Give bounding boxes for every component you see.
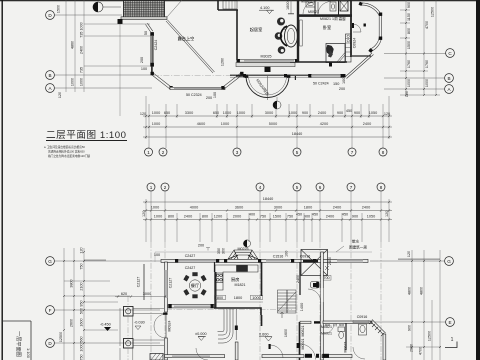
dark leafs on bottom wall bbox=[305, 354, 312, 358]
washbasin fixture bbox=[359, 324, 367, 335]
svg-text:120: 120 bbox=[384, 112, 390, 116]
X-box stair flue bbox=[301, 250, 328, 276]
lower right chain ticks bbox=[411, 260, 441, 348]
svg-text:750: 750 bbox=[80, 354, 84, 360]
south balcony rail strip bbox=[230, 74, 346, 77]
svg-text:2: 2 bbox=[164, 185, 167, 190]
svg-text:3000: 3000 bbox=[143, 292, 151, 296]
bottom grid bubbles upper plan bbox=[145, 148, 388, 156]
lower chain ticks bbox=[145, 201, 390, 221]
grid bubble A right bbox=[445, 85, 454, 94]
svg-text:120: 120 bbox=[407, 251, 411, 257]
svg-text:4700: 4700 bbox=[419, 347, 423, 355]
svg-text:4: 4 bbox=[259, 185, 262, 190]
bay diagonal wall SE bbox=[221, 72, 243, 90]
svg-text:2400: 2400 bbox=[318, 111, 326, 115]
svg-text:B: B bbox=[447, 76, 450, 81]
svg-text:7: 7 bbox=[350, 185, 353, 190]
svg-text:3300: 3300 bbox=[185, 111, 193, 115]
svg-text:1800: 1800 bbox=[304, 206, 312, 210]
svg-text:±0.000: ±0.000 bbox=[195, 332, 207, 336]
chain ticks row1 bbox=[145, 115, 390, 117]
svg-text:1: 1 bbox=[147, 150, 150, 155]
svg-text:C0924: C0924 bbox=[353, 38, 357, 49]
arc balcony over entry bbox=[246, 76, 289, 97]
svg-text:1:100: 1:100 bbox=[26, 348, 31, 359]
svg-text:1600: 1600 bbox=[80, 318, 84, 326]
svg-text:900: 900 bbox=[352, 215, 358, 219]
svg-text:1000: 1000 bbox=[80, 343, 84, 351]
bottom dimension chain extension lines bbox=[146, 96, 389, 148]
svg-text:1260: 1260 bbox=[221, 58, 225, 66]
svg-text:2400: 2400 bbox=[296, 275, 300, 283]
bubble 7 bbox=[348, 148, 356, 156]
svg-text:900: 900 bbox=[354, 111, 360, 115]
bottom center door arc 2 bbox=[196, 348, 208, 360]
svg-text:1000: 1000 bbox=[152, 111, 160, 115]
svg-text:18440: 18440 bbox=[292, 132, 303, 136]
svg-text:450: 450 bbox=[346, 109, 352, 113]
wall x=218 top bbox=[217, 0, 219, 10]
dim row1 texts bbox=[140, 109, 390, 116]
porch column top bbox=[124, 307, 134, 317]
left grid bubble F bbox=[46, 306, 55, 315]
central wall lower part bbox=[261, 315, 263, 326]
svg-text:650: 650 bbox=[164, 111, 170, 115]
bubble 1 bbox=[147, 183, 155, 191]
south wall segment B line left of arc bbox=[236, 75, 248, 77]
bubble 2 bbox=[159, 148, 167, 156]
svg-text:C2427: C2427 bbox=[185, 266, 196, 270]
balcony bottom wall bbox=[121, 17, 167, 20]
bay south diagonal rail bbox=[345, 53, 372, 77]
svg-text:1000: 1000 bbox=[154, 215, 162, 219]
svg-text:900: 900 bbox=[408, 325, 412, 331]
svg-text:2400: 2400 bbox=[333, 206, 341, 210]
living room west wall bbox=[236, 10, 238, 60]
grid line A right bbox=[384, 88, 445, 90]
svg-text:2400: 2400 bbox=[328, 257, 332, 265]
svg-text:4800: 4800 bbox=[420, 287, 424, 295]
toilet fixture small room bbox=[311, 282, 320, 289]
svg-text:200: 200 bbox=[339, 87, 345, 91]
svg-text:M0821: M0821 bbox=[301, 326, 305, 337]
apron left vertical bbox=[154, 252, 156, 262]
plan title 二层平面图 1:100 bbox=[46, 130, 127, 141]
lower left dim column lines bbox=[64, 248, 130, 360]
svg-text:4800: 4800 bbox=[408, 287, 412, 295]
svg-text:1500: 1500 bbox=[273, 215, 281, 219]
boxed dims 800 1800 1000 bbox=[215, 295, 264, 302]
svg-text:12500: 12500 bbox=[431, 7, 435, 17]
stairs arrow bbox=[281, 312, 284, 318]
left dim texts rotated bbox=[57, 5, 84, 98]
svg-text:1200: 1200 bbox=[214, 215, 222, 219]
leader for note bbox=[336, 246, 344, 252]
svg-text:C2127: C2127 bbox=[137, 277, 141, 288]
dark door leaf on bedroom wall bbox=[329, 62, 332, 67]
right grid bubble G bbox=[445, 257, 454, 266]
column bubble at entry bbox=[243, 240, 250, 247]
door opening labels on bathroom wall bbox=[325, 323, 345, 327]
svg-text:3800: 3800 bbox=[70, 279, 74, 287]
hatch wall stub bottom-left bbox=[150, 354, 164, 360]
lower chain row3 texts bbox=[142, 211, 389, 219]
svg-text:800: 800 bbox=[217, 296, 223, 300]
svg-text:1000: 1000 bbox=[221, 122, 229, 126]
small table bbox=[283, 26, 286, 29]
right grid bubble E bbox=[446, 318, 455, 327]
svg-text:8: 8 bbox=[380, 185, 383, 190]
bay window bottom-left: diagonal wall SW bbox=[151, 72, 173, 90]
svg-text:100: 100 bbox=[213, 92, 217, 98]
grid bubble A left bbox=[46, 84, 55, 93]
svg-text:1760: 1760 bbox=[425, 60, 429, 68]
window on left wall bbox=[165, 270, 167, 298]
svg-text:5000: 5000 bbox=[269, 122, 277, 126]
svg-text:4000: 4000 bbox=[190, 206, 198, 210]
dining table round with chairs bbox=[184, 273, 207, 299]
svg-text:750: 750 bbox=[80, 263, 84, 269]
G grid line right bbox=[370, 259, 445, 261]
lower chain row2 texts bbox=[151, 206, 370, 210]
svg-text:18440: 18440 bbox=[263, 197, 274, 201]
svg-text:G: G bbox=[48, 259, 52, 264]
svg-text:露台上空: 露台上空 bbox=[178, 35, 195, 42]
lower top wall with windows bbox=[161, 259, 368, 263]
svg-text:C2427: C2427 bbox=[185, 254, 196, 258]
bath partition x=315 bbox=[314, 0, 316, 15]
bay bottom wall with window C2324 bbox=[170, 87, 225, 89]
apron line 散水 around building top bbox=[155, 251, 372, 253]
svg-text:C0916: C0916 bbox=[357, 315, 368, 319]
F grid line left bbox=[55, 309, 161, 311]
major wall x=322 bbox=[321, 252, 324, 360]
svg-text:2400: 2400 bbox=[362, 206, 370, 210]
grid bubble B right bbox=[445, 74, 454, 83]
svg-text:1000: 1000 bbox=[407, 79, 411, 87]
svg-text:普通降走相应外墙100 宽未650: 普通降走相应外墙100 宽未650 bbox=[48, 150, 85, 154]
section marker 1 bottom right bbox=[445, 337, 457, 348]
dim chain row3 line bbox=[143, 136, 392, 138]
svg-text:200: 200 bbox=[206, 96, 212, 100]
svg-text:1760: 1760 bbox=[407, 60, 411, 68]
grid line D bbox=[55, 14, 123, 16]
TV bench on hall wall bbox=[300, 20, 303, 46]
svg-text:3: 3 bbox=[236, 150, 239, 155]
svg-text:1400: 1400 bbox=[300, 303, 304, 311]
interior wall x=298 bbox=[297, 0, 299, 62]
level -0.030 bbox=[134, 321, 145, 330]
svg-text:1000: 1000 bbox=[223, 111, 231, 115]
svg-text:50: 50 bbox=[144, 31, 148, 35]
svg-text:一层平面图: 一层平面图 bbox=[15, 331, 22, 357]
svg-text:2000: 2000 bbox=[233, 215, 241, 219]
porch column bottom bbox=[124, 339, 134, 349]
door M0921 on bedroom east wall bbox=[353, 24, 361, 32]
bubble 4 bbox=[256, 183, 264, 191]
svg-text:400: 400 bbox=[249, 213, 255, 217]
sofa oval bbox=[281, 25, 298, 47]
svg-text:735 1000: 735 1000 bbox=[80, 22, 84, 37]
extension line from balcony column bbox=[119, 24, 121, 116]
svg-text:4.100: 4.100 bbox=[260, 6, 270, 10]
svg-text:560: 560 bbox=[80, 336, 84, 342]
left wall below door bbox=[165, 338, 168, 360]
svg-text:120: 120 bbox=[405, 91, 409, 97]
svg-text:2600: 2600 bbox=[70, 319, 74, 327]
svg-text:M3025: M3025 bbox=[261, 55, 272, 59]
svg-text:350: 350 bbox=[217, 248, 221, 254]
svg-text:7: 7 bbox=[351, 150, 354, 155]
svg-text:5: 5 bbox=[296, 185, 299, 190]
upper plan right dim column lines bbox=[400, 0, 440, 95]
svg-text:a. 卫生间及露台楼面标高比相应50: a. 卫生间及露台楼面标高比相应50 bbox=[44, 145, 85, 149]
svg-text:起居室: 起居室 bbox=[250, 26, 263, 33]
svg-text:1000: 1000 bbox=[237, 111, 245, 115]
svg-text:800: 800 bbox=[168, 215, 174, 219]
svg-text:卧室: 卧室 bbox=[323, 24, 331, 31]
svg-text:100: 100 bbox=[285, 251, 289, 257]
entry steps trapezoid bbox=[228, 250, 258, 259]
dim chain row2 line bbox=[143, 126, 392, 128]
svg-text:1: 1 bbox=[150, 185, 153, 190]
bubble 1 bbox=[145, 148, 153, 156]
level marker 4.100 bbox=[259, 6, 274, 14]
bathroom door arc bbox=[324, 324, 334, 334]
svg-text:1150: 1150 bbox=[407, 13, 411, 21]
svg-text:1000: 1000 bbox=[289, 111, 297, 115]
column bubble top-left bbox=[93, 2, 121, 12]
bedroom east wall bbox=[350, 0, 352, 57]
svg-text:950: 950 bbox=[80, 300, 84, 306]
svg-text:1000: 1000 bbox=[152, 122, 160, 126]
terrace rail band below M3025 bbox=[236, 63, 295, 73]
svg-text:800: 800 bbox=[202, 215, 208, 219]
svg-text:100: 100 bbox=[154, 253, 160, 257]
svg-text:M06: M06 bbox=[339, 323, 345, 327]
svg-text:700: 700 bbox=[323, 276, 329, 280]
svg-text:620: 620 bbox=[121, 292, 127, 296]
svg-text:2400: 2400 bbox=[80, 46, 84, 54]
svg-text:M0924: M0924 bbox=[168, 321, 172, 332]
left exterior wall with window C2424 bbox=[146, 23, 154, 72]
right chain ticks bbox=[405, 9, 437, 96]
arc springing caps bbox=[245, 75, 248, 78]
svg-text:2: 2 bbox=[162, 150, 165, 155]
dim 200 H near entry bbox=[198, 244, 210, 251]
bottom wall segments bbox=[165, 355, 352, 358]
porch dim line 620 3000 bbox=[115, 292, 166, 298]
svg-text:-0.030: -0.030 bbox=[134, 321, 145, 325]
svg-text:120: 120 bbox=[140, 112, 146, 116]
curved sliding door tracks bbox=[218, 309, 237, 343]
svg-text:900: 900 bbox=[407, 2, 411, 8]
svg-text:1500: 1500 bbox=[407, 41, 411, 49]
svg-text:围建筑一周: 围建筑一周 bbox=[349, 245, 367, 250]
dark window C0916 on top wall bbox=[303, 260, 318, 263]
upper plan left dim column lines bbox=[66, 0, 150, 92]
door M0924 half arc bbox=[154, 313, 168, 338]
svg-text:1050: 1050 bbox=[369, 111, 377, 115]
bubble 2 bbox=[161, 183, 169, 191]
svg-text:2900: 2900 bbox=[410, 344, 414, 352]
porch beam lines vertical bbox=[120, 308, 164, 360]
dim row2 texts bbox=[152, 122, 371, 126]
svg-text:2100: 2100 bbox=[80, 282, 84, 290]
svg-text:450: 450 bbox=[296, 213, 302, 217]
svg-text:格门之处为降水走距离电梯120门锁: 格门之处为降水走距离电梯120门锁 bbox=[48, 154, 90, 158]
door on wall x=322 bbox=[308, 283, 323, 302]
door arc hallway 2 bbox=[318, 1, 331, 14]
svg-text:2400: 2400 bbox=[363, 122, 371, 126]
curved bay window right bbox=[360, 3, 382, 52]
svg-text:12500: 12500 bbox=[428, 331, 432, 341]
lower left chain ticks bbox=[63, 251, 85, 344]
central wall x=262 bbox=[261, 262, 263, 296]
grid line B right bbox=[384, 77, 445, 79]
E grid line right bbox=[375, 321, 446, 323]
svg-text:1600: 1600 bbox=[284, 329, 288, 337]
svg-text:M0921: M0921 bbox=[321, 332, 332, 336]
lower chain row3 line bbox=[143, 219, 392, 221]
svg-text:二层平面图 1:100: 二层平面图 1:100 bbox=[46, 130, 126, 141]
X column flue top bbox=[340, 1, 348, 11]
bay south wall stub bbox=[352, 55, 371, 57]
svg-text:1000: 1000 bbox=[252, 296, 260, 300]
dark door leaf bottom bbox=[269, 344, 271, 349]
column at balcony left bbox=[118, 19, 123, 24]
svg-text:6: 6 bbox=[319, 185, 322, 190]
svg-text:1000: 1000 bbox=[425, 79, 429, 87]
svg-text:450: 450 bbox=[312, 213, 318, 217]
bay window caps bbox=[358, 2, 382, 53]
svg-text:C2424: C2424 bbox=[154, 40, 158, 51]
lower extension lines from chain to building bbox=[146, 191, 389, 242]
interior wall y=15.5 hallway bbox=[297, 14, 352, 17]
svg-text:50 C2424: 50 C2424 bbox=[313, 82, 329, 86]
svg-text:0.600: 0.600 bbox=[259, 333, 269, 337]
closet top-left of living room bbox=[223, 0, 237, 9]
svg-text:M06: M06 bbox=[325, 323, 331, 327]
svg-text:800: 800 bbox=[407, 28, 411, 34]
hall wall x=300 bbox=[299, 322, 301, 360]
svg-text:4200: 4200 bbox=[320, 122, 328, 126]
svg-text:500: 500 bbox=[80, 308, 84, 314]
svg-text:F: F bbox=[49, 308, 52, 313]
sofa round chair 3 bbox=[278, 46, 286, 54]
lower right dim column lines bbox=[406, 250, 441, 360]
grid bubble B left bbox=[46, 71, 55, 80]
right wall bottom segment bbox=[383, 334, 386, 360]
svg-text:C2127: C2127 bbox=[169, 278, 173, 289]
notes under title bbox=[44, 145, 90, 158]
secondary porch wall bbox=[143, 264, 145, 300]
kitchen west wall bbox=[214, 262, 216, 272]
stairs bbox=[278, 290, 297, 313]
svg-text:4700: 4700 bbox=[425, 21, 429, 29]
bubble 8 bbox=[379, 148, 387, 156]
door handle glyph bbox=[364, 24, 366, 27]
svg-text:8: 8 bbox=[382, 150, 385, 155]
svg-text:900: 900 bbox=[337, 111, 343, 115]
lower chain row2 line bbox=[143, 210, 392, 212]
svg-text:1500: 1500 bbox=[57, 5, 61, 13]
svg-text:2400: 2400 bbox=[184, 215, 192, 219]
svg-text:300: 300 bbox=[222, 248, 226, 254]
tick at arc right bbox=[295, 76, 296, 80]
svg-text:M0921: M0921 bbox=[301, 0, 312, 4]
diagonal terrace wall bbox=[166, 21, 213, 73]
rail window band right segment bbox=[308, 74, 344, 78]
left exterior wall lower bbox=[165, 262, 168, 312]
outdoor corner steps diagonal bbox=[369, 320, 386, 337]
svg-text:2400: 2400 bbox=[326, 215, 334, 219]
svg-text:厨房: 厨房 bbox=[231, 276, 239, 283]
svg-text:450: 450 bbox=[342, 213, 348, 217]
svg-text:M0225: M0225 bbox=[238, 247, 249, 251]
grid line B left bbox=[55, 74, 153, 76]
D grid line left bbox=[55, 342, 161, 344]
slope arrow near flue bbox=[325, 266, 329, 270]
corridor wall y=322 segment bbox=[300, 321, 311, 323]
svg-text:餐厅: 餐厅 bbox=[191, 282, 199, 289]
svg-text:1000: 1000 bbox=[80, 78, 84, 86]
dining south wall with window bbox=[168, 304, 215, 308]
svg-text:1: 1 bbox=[451, 337, 454, 343]
svg-text:1050: 1050 bbox=[367, 215, 375, 219]
level 0.600 bbox=[259, 333, 272, 342]
svg-text:3600: 3600 bbox=[235, 206, 243, 210]
bubble 5 bbox=[293, 148, 301, 156]
svg-text:50 C2324: 50 C2324 bbox=[186, 93, 202, 97]
corner wall to x=260 bbox=[256, 308, 261, 315]
lower left dim texts bbox=[59, 247, 84, 360]
bathroom fixtures top bbox=[306, 1, 336, 11]
svg-text:650: 650 bbox=[213, 111, 219, 115]
bubble 6 bbox=[316, 183, 324, 191]
right dim texts rotated bbox=[405, 2, 435, 97]
bath partition x=338 bbox=[338, 0, 340, 15]
grid line C right bbox=[384, 53, 446, 55]
svg-text:M1821: M1821 bbox=[235, 283, 246, 287]
svg-text:1600: 1600 bbox=[286, 2, 290, 10]
bubble 3 bbox=[233, 148, 241, 156]
toilet fixture lower bbox=[338, 327, 345, 338]
svg-text:100: 100 bbox=[342, 78, 346, 84]
svg-text:150: 150 bbox=[333, 82, 339, 86]
interior door arc bottom center bbox=[270, 345, 283, 358]
top grid bubbles lower plan bbox=[147, 183, 385, 191]
wall segment y=10 bbox=[218, 9, 238, 11]
hatched balcony top-left bbox=[124, 1, 165, 18]
svg-text:900: 900 bbox=[304, 215, 310, 219]
svg-text:4860: 4860 bbox=[71, 41, 75, 49]
svg-text:735: 735 bbox=[80, 67, 84, 73]
svg-text:5: 5 bbox=[296, 150, 299, 155]
svg-text:C1516: C1516 bbox=[273, 255, 284, 259]
bubble 8 bbox=[377, 183, 385, 191]
title block box bottom-left bbox=[2, 321, 31, 360]
svg-text:200: 200 bbox=[140, 57, 144, 63]
svg-text:200: 200 bbox=[198, 244, 204, 248]
window C0916 lower right bbox=[353, 315, 369, 323]
svg-text:4600: 4600 bbox=[197, 122, 205, 126]
grid bubble C right bbox=[446, 49, 455, 58]
lower right dim texts bbox=[407, 251, 432, 355]
svg-text:120: 120 bbox=[58, 92, 62, 98]
level +-0.000 bbox=[195, 332, 207, 341]
